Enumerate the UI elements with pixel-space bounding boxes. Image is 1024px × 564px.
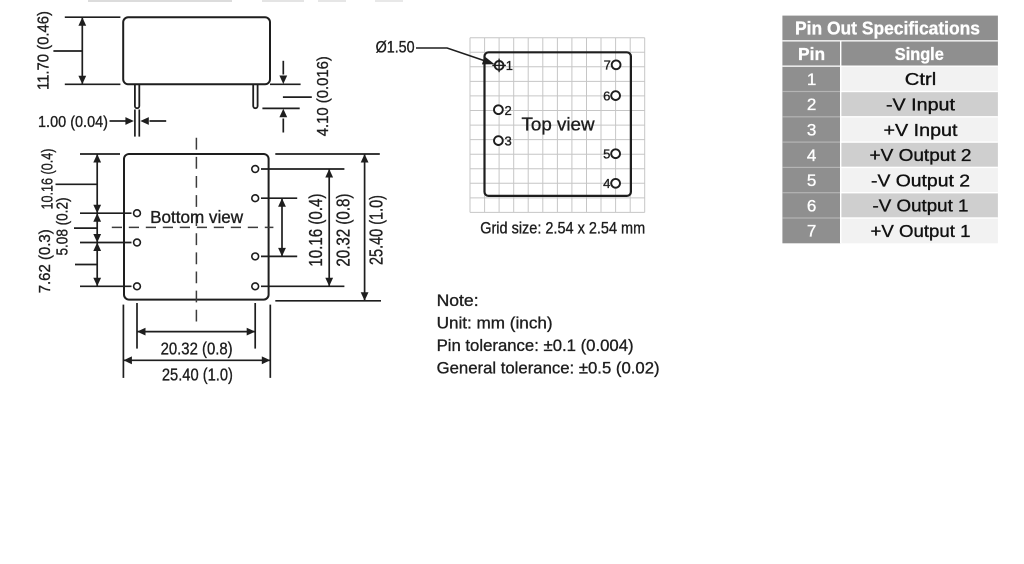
svg-text:Grid size: 2.54 x 2.54 mm: Grid size: 2.54 x 2.54 mm — [480, 218, 645, 237]
svg-text:3: 3 — [505, 134, 512, 149]
svg-text:4.10 (0.016): 4.10 (0.016) — [315, 56, 332, 136]
svg-text:+V Output 2: +V Output 2 — [870, 145, 972, 165]
svg-text:2: 2 — [807, 95, 816, 114]
svg-text:-V Input: -V Input — [886, 94, 955, 114]
svg-text:7: 7 — [807, 222, 816, 241]
svg-text:3: 3 — [807, 120, 816, 139]
svg-text:6: 6 — [603, 88, 610, 103]
svg-text:Ø1.50: Ø1.50 — [376, 39, 415, 57]
svg-text:Bottom view: Bottom view — [150, 207, 244, 227]
svg-text:Pin Out Specifications: Pin Out Specifications — [795, 19, 980, 39]
svg-text:10.16 (0.4): 10.16 (0.4) — [306, 194, 326, 267]
svg-text:Ctrl: Ctrl — [905, 69, 937, 89]
svg-text:5: 5 — [807, 171, 816, 190]
svg-text:5.08 (0.2): 5.08 (0.2) — [55, 198, 72, 256]
svg-text:2: 2 — [505, 103, 512, 118]
svg-text:-V Output 2: -V Output 2 — [871, 170, 970, 190]
svg-text:+V Input: +V Input — [884, 120, 958, 140]
svg-text:Unit: mm (inch): Unit: mm (inch) — [437, 314, 553, 333]
svg-text:Pin tolerance: ±0.1 (0.004): Pin tolerance: ±0.1 (0.004) — [437, 336, 634, 355]
svg-text:Note:: Note: — [437, 291, 479, 310]
svg-text:1.00 (0.04): 1.00 (0.04) — [38, 114, 108, 131]
svg-text:5: 5 — [603, 147, 610, 162]
svg-text:General tolerance: ±0.5 (0.02): General tolerance: ±0.5 (0.02) — [437, 358, 660, 377]
svg-text:20.32 (0.8): 20.32 (0.8) — [333, 194, 353, 267]
svg-text:+V Output 1: +V Output 1 — [871, 221, 971, 241]
svg-text:25.40 (1.0): 25.40 (1.0) — [367, 195, 387, 265]
svg-text:-V Output 1: -V Output 1 — [873, 196, 969, 216]
svg-text:6: 6 — [807, 196, 816, 215]
svg-text:25.40 (1.0): 25.40 (1.0) — [162, 364, 233, 384]
svg-text:Single: Single — [895, 44, 944, 64]
svg-text:4: 4 — [603, 176, 610, 191]
svg-text:Pin: Pin — [798, 44, 825, 64]
svg-text:Top view: Top view — [522, 114, 596, 135]
svg-text:1: 1 — [506, 58, 513, 73]
svg-text:7: 7 — [604, 58, 611, 73]
svg-text:1: 1 — [807, 70, 816, 89]
svg-text:7.62 (0.3): 7.62 (0.3) — [37, 229, 54, 293]
svg-text:20.32 (0.8): 20.32 (0.8) — [161, 339, 233, 359]
svg-text:11.70 (0.46): 11.70 (0.46) — [35, 11, 52, 90]
svg-text:4: 4 — [807, 146, 816, 165]
